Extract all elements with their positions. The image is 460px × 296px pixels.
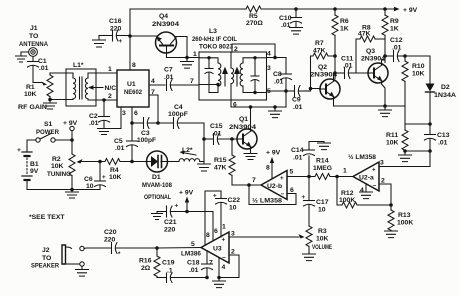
svg-text:220: 220 xyxy=(164,227,176,234)
wire C20 to U3 apex xyxy=(157,247,201,250)
svg-text:1K: 1K xyxy=(340,26,349,33)
capacitor C21 xyxy=(157,203,187,234)
node +9V terminal xyxy=(63,120,78,131)
svg-text:+: + xyxy=(17,147,21,154)
wire Q4 base to L3 pin1 xyxy=(167,57,200,59)
svg-text:8: 8 xyxy=(206,232,210,239)
svg-text:C9: C9 xyxy=(292,97,301,104)
capacitor C16 xyxy=(99,18,130,45)
transformer L3 xyxy=(192,28,267,100)
capacitor C11 xyxy=(335,56,368,79)
svg-text:C7: C7 xyxy=(164,67,173,74)
svg-text:NE602: NE602 xyxy=(124,89,142,96)
svg-text:1: 1 xyxy=(222,224,226,231)
ground xyxy=(76,266,89,276)
svg-text:C19: C19 xyxy=(162,260,175,267)
wire pin4 to C8 xyxy=(267,57,287,59)
svg-text:10K: 10K xyxy=(386,140,399,147)
svg-text:100pF: 100pF xyxy=(168,111,188,118)
svg-text:10K: 10K xyxy=(316,236,329,243)
wire U2-a pin4 ground xyxy=(365,184,367,193)
svg-text:R6: R6 xyxy=(340,18,349,25)
svg-text:MVAM-108: MVAM-108 xyxy=(142,182,172,189)
wire collector bus xyxy=(231,106,286,108)
svg-text:C17: C17 xyxy=(316,199,329,206)
ground xyxy=(198,164,211,171)
svg-text:L3: L3 xyxy=(209,28,217,35)
svg-text:Q3: Q3 xyxy=(366,48,375,55)
wire L3 internal top right to pin4 xyxy=(255,57,267,59)
wire battery bottom rail xyxy=(27,181,100,190)
svg-text:C20: C20 xyxy=(104,229,117,236)
ground xyxy=(399,151,412,162)
wire to D2 xyxy=(405,56,430,83)
svg-text:C8: C8 xyxy=(273,71,282,78)
wire L3 pin6 down xyxy=(230,100,232,107)
jack J2 xyxy=(31,245,87,270)
resistor R6 xyxy=(332,9,349,79)
op-amp U1 NE602 (mixer box) xyxy=(117,70,149,107)
ground xyxy=(66,190,79,199)
resistor R11 xyxy=(386,124,408,151)
resistor R15 xyxy=(214,139,235,185)
wire C4 corner down xyxy=(203,123,205,164)
svg-text:R3: R3 xyxy=(318,228,327,235)
wire Q2 emitter down xyxy=(333,100,335,106)
wire U3 pin4 xyxy=(218,258,220,278)
svg-text:2: 2 xyxy=(381,178,385,185)
transistor Q2 xyxy=(310,64,340,100)
wire R4 to D1 xyxy=(129,161,147,163)
wire wiper arm to R1 xyxy=(33,82,42,84)
svg-text:D1: D1 xyxy=(152,174,161,181)
ground xyxy=(379,106,392,117)
svg-text:TUNING: TUNING xyxy=(47,171,71,178)
svg-text:+: + xyxy=(119,38,123,45)
svg-text:10K: 10K xyxy=(109,174,122,181)
svg-text:−: − xyxy=(373,183,377,190)
svg-text:C21: C21 xyxy=(164,219,177,226)
capacitor C4 xyxy=(158,104,204,129)
svg-text:L1*: L1* xyxy=(73,62,84,69)
node D1 left junction xyxy=(130,160,134,164)
svg-text:+: + xyxy=(280,175,284,182)
wire U3 pin3 to volume xyxy=(229,236,299,238)
svg-text:.01: .01 xyxy=(189,267,199,274)
wire U2-a pin3 stub xyxy=(379,166,383,168)
svg-text:D2: D2 xyxy=(441,84,450,91)
wire battery to switch xyxy=(27,140,36,152)
svg-text:½ LM358: ½ LM358 xyxy=(348,153,376,161)
transistor Q4 xyxy=(152,13,179,58)
svg-text:47K: 47K xyxy=(358,31,371,38)
svg-text:C16: C16 xyxy=(109,18,122,25)
wire U2-b pin6 feedback loop xyxy=(249,185,296,205)
node R15 tap xyxy=(230,137,234,141)
potentiometer R1 xyxy=(18,73,53,111)
svg-text:C13: C13 xyxy=(437,132,450,139)
wire switch to R2 top xyxy=(55,139,72,141)
svg-text:2N3904: 2N3904 xyxy=(152,21,179,28)
ground xyxy=(152,212,163,220)
svg-text:R2: R2 xyxy=(52,156,61,163)
capacitor C20 xyxy=(104,229,157,258)
svg-text:.01: .01 xyxy=(392,45,402,52)
capacitor L3 internal right xyxy=(251,58,267,93)
resistor R10 xyxy=(402,56,425,124)
svg-text:5: 5 xyxy=(290,169,294,176)
node U2-a pin1 junction xyxy=(335,175,339,179)
svg-text:C10: C10 xyxy=(279,15,292,22)
ground xyxy=(290,28,303,35)
resistor R8 xyxy=(356,25,385,74)
svg-text:7: 7 xyxy=(252,177,256,184)
node C12 xyxy=(383,54,387,58)
diode D1 varactor xyxy=(142,151,172,201)
svg-text:10: 10 xyxy=(318,207,326,214)
inductor L3 internal center winding xyxy=(231,52,234,100)
svg-text:+: + xyxy=(302,194,306,201)
svg-text:220: 220 xyxy=(104,237,116,244)
core arrow right xyxy=(235,68,239,86)
transformer L1 xyxy=(66,62,96,106)
wire Q4 collector loop xyxy=(176,37,187,58)
svg-text:Q2: Q2 xyxy=(318,64,327,71)
svg-text:+ 9V: + 9V xyxy=(403,7,418,14)
node C3/C4/pin7 junction xyxy=(156,121,160,125)
svg-text:3: 3 xyxy=(231,231,235,238)
node R13 top xyxy=(389,203,393,207)
svg-text:1N34A: 1N34A xyxy=(434,92,456,99)
svg-text:TO: TO xyxy=(29,33,38,40)
svg-text:C12: C12 xyxy=(390,37,403,44)
capacitor C9 xyxy=(286,86,311,112)
wire U1 pin3 to C2 ground line xyxy=(104,107,121,129)
capacitor C13 xyxy=(425,124,450,151)
svg-text:−: − xyxy=(222,255,226,262)
svg-text:3: 3 xyxy=(122,110,126,117)
svg-text:+ 9V: + 9V xyxy=(266,150,281,157)
svg-text:7: 7 xyxy=(190,78,194,85)
wire R1 top to L1 xyxy=(50,72,66,74)
svg-text:U1: U1 xyxy=(127,81,136,88)
wiper R2 arrow xyxy=(77,159,83,164)
wire U3 pin2 loop xyxy=(219,255,239,278)
capacitor C10 xyxy=(279,9,302,29)
capacitor C6 xyxy=(84,162,106,191)
svg-text:.1: .1 xyxy=(167,268,173,275)
svg-text:R12: R12 xyxy=(341,190,354,197)
wire U2-b pin5 xyxy=(287,176,309,178)
resistor R14 xyxy=(309,158,337,180)
ground xyxy=(318,142,331,150)
svg-text:47K: 47K xyxy=(313,48,326,55)
svg-text:100pF: 100pF xyxy=(137,137,156,144)
svg-text:OPTIONAL: OPTIONAL xyxy=(144,194,171,201)
capacitor C1 xyxy=(28,57,49,83)
svg-text:VOLUME: VOLUME xyxy=(312,244,332,251)
node R2 ground xyxy=(70,188,74,192)
node bottom bus xyxy=(205,276,209,280)
svg-text:R9: R9 xyxy=(390,18,399,25)
svg-text:C4: C4 xyxy=(174,104,183,111)
svg-text:R1: R1 xyxy=(26,84,35,91)
wire 9V terminal down xyxy=(71,131,73,154)
svg-text:100K: 100K xyxy=(339,197,355,204)
svg-text:+: + xyxy=(175,203,179,210)
svg-text:L2*: L2* xyxy=(182,147,193,154)
svg-text:½ LM358: ½ LM358 xyxy=(252,197,282,205)
potentiometer R3 volume xyxy=(306,226,332,254)
capacitor C3 xyxy=(132,118,158,145)
wire Q3 collector xyxy=(382,56,386,63)
ground xyxy=(44,100,57,110)
svg-text:R7: R7 xyxy=(315,40,324,47)
resistor R9 xyxy=(382,9,399,63)
capacitor C7 xyxy=(164,67,199,91)
svg-text:Q4: Q4 xyxy=(159,13,168,20)
svg-text:3: 3 xyxy=(380,160,384,167)
svg-text:+: + xyxy=(372,167,376,174)
svg-text:C22: C22 xyxy=(228,197,241,204)
potentiometer R2 xyxy=(47,154,75,190)
node pin6 junction xyxy=(130,121,134,125)
svg-text:6: 6 xyxy=(290,187,294,194)
svg-text:270Ω: 270Ω xyxy=(246,20,263,27)
svg-text:R14: R14 xyxy=(316,158,329,165)
svg-text:C6: C6 xyxy=(84,176,93,183)
wire rail riser xyxy=(130,9,246,36)
capacitor C8 xyxy=(273,58,292,92)
svg-text:2: 2 xyxy=(231,249,235,256)
capacitor C5 xyxy=(114,123,138,162)
svg-text:260-kHz IF COIL: 260-kHz IF COIL xyxy=(192,36,237,43)
svg-text:.01: .01 xyxy=(438,140,448,147)
wire Q2 base xyxy=(304,90,311,92)
svg-text:U2-a: U2-a xyxy=(359,175,374,182)
diode D2 xyxy=(426,84,457,125)
wire pin1 L1 to U1 xyxy=(96,72,117,74)
svg-text:C18: C18 xyxy=(187,260,200,267)
transistor Q3 xyxy=(361,48,388,84)
wire U1 pin8 up xyxy=(129,36,131,70)
ground xyxy=(98,129,111,135)
inductor L3 internal right winding xyxy=(240,58,255,93)
ground xyxy=(16,56,27,62)
wire L3 pin2 jumper xyxy=(232,44,275,58)
svg-text:ANTENNA: ANTENNA xyxy=(19,41,48,48)
svg-text:R15: R15 xyxy=(214,157,227,164)
resistor R12 xyxy=(337,177,391,209)
svg-text:7: 7 xyxy=(209,260,213,267)
svg-text:47K: 47K xyxy=(214,165,227,172)
svg-text:C11: C11 xyxy=(341,56,353,63)
svg-text:+: + xyxy=(213,193,217,200)
node L3 pin4 xyxy=(273,56,277,60)
svg-text:R4: R4 xyxy=(110,167,119,174)
capacitor L3 internal left xyxy=(199,58,213,93)
node C8/C9 xyxy=(284,89,288,93)
wire to U2-a pin3 xyxy=(383,151,430,167)
svg-text:J1: J1 xyxy=(30,25,38,32)
ground xyxy=(303,254,316,261)
svg-text:10K: 10K xyxy=(51,163,64,170)
svg-text:R13: R13 xyxy=(398,212,411,219)
svg-text:S1: S1 xyxy=(44,121,53,128)
wire rail to R6 R9 and +9V xyxy=(296,8,398,10)
svg-text:U2-b: U2-b xyxy=(267,183,282,190)
svg-text:*SEE TEXT: *SEE TEXT xyxy=(29,214,65,221)
resistor R16 xyxy=(139,248,160,278)
svg-text:1: 1 xyxy=(193,51,197,58)
svg-text:2: 2 xyxy=(234,46,238,53)
wire U3 pin8 loop xyxy=(205,191,221,246)
node U2-b pin5 junction xyxy=(307,175,311,179)
node C16/pin8 xyxy=(128,34,132,38)
node R10 top xyxy=(403,54,407,58)
svg-text:C2: C2 xyxy=(89,113,98,120)
ground xyxy=(269,107,282,118)
svg-text:1: 1 xyxy=(108,66,112,73)
resistor R4 xyxy=(100,159,129,182)
node C6 junction xyxy=(98,160,102,164)
wire U1 pin6 down xyxy=(131,107,133,123)
resistor R7 xyxy=(311,40,336,89)
svg-text:Q1: Q1 xyxy=(239,116,248,123)
node R1 bottom xyxy=(48,98,52,102)
svg-text:C15: C15 xyxy=(210,123,223,130)
capacitor C22 xyxy=(213,191,240,237)
op-amp U3 xyxy=(181,232,229,263)
svg-text:10K: 10K xyxy=(412,71,425,78)
svg-text:5: 5 xyxy=(267,88,271,95)
wire L3 pin5 xyxy=(267,90,287,92)
wire Q2 collector up xyxy=(333,73,335,79)
svg-text:RF GAIN: RF GAIN xyxy=(18,104,47,111)
wire U1 pin7 to oscillator xyxy=(149,95,158,123)
svg-text:+: + xyxy=(102,174,106,181)
svg-text:10: 10 xyxy=(229,205,237,212)
svg-text:.01: .01 xyxy=(89,120,99,127)
svg-text:.01: .01 xyxy=(343,63,353,70)
svg-text:8: 8 xyxy=(132,62,136,69)
svg-text:.01: .01 xyxy=(212,131,222,138)
battery B1 xyxy=(17,147,39,180)
svg-text:.01: .01 xyxy=(39,65,49,72)
svg-text:TOKO 8023: TOKO 8023 xyxy=(199,44,233,51)
svg-text:8: 8 xyxy=(266,165,270,172)
wire R11/C13 bottom xyxy=(405,150,430,152)
svg-text:6: 6 xyxy=(214,228,218,235)
wire to U2-a apex xyxy=(337,176,353,178)
svg-text:R10: R10 xyxy=(412,63,425,70)
svg-text:9V: 9V xyxy=(30,168,39,175)
svg-text:TO: TO xyxy=(42,255,51,262)
ground Q1 emitter xyxy=(244,150,257,160)
wire U2-a pin2 xyxy=(379,184,391,205)
svg-text:R16: R16 xyxy=(139,258,152,265)
svg-text:.01: .01 xyxy=(274,79,284,86)
wire pin2 L1 to U1 xyxy=(96,99,117,101)
connector J1 xyxy=(19,25,48,56)
svg-text:6: 6 xyxy=(134,110,138,117)
svg-text:C1: C1 xyxy=(38,58,47,65)
capacitor C18 xyxy=(187,251,213,278)
svg-text:10: 10 xyxy=(86,183,94,190)
node R16 tap xyxy=(155,246,159,250)
wire U1 pin4 to C7 xyxy=(149,84,165,86)
capacitor C14 xyxy=(291,142,324,177)
capacitor C2 xyxy=(89,100,110,129)
node C2 tap xyxy=(102,98,106,102)
resistor R5 on rail xyxy=(246,6,295,27)
op-amp U2-a xyxy=(348,153,379,191)
inductor L3 internal left winding xyxy=(209,58,221,93)
op-amp U2-b xyxy=(261,171,287,200)
capacitor C15 xyxy=(204,123,237,145)
wire U2-b pin7 xyxy=(232,184,261,186)
svg-text:4: 4 xyxy=(222,264,226,271)
wire Q4 emitter to node xyxy=(130,35,157,37)
svg-text:+: + xyxy=(222,237,226,244)
svg-text:C14: C14 xyxy=(291,147,304,154)
wire L1 lower left xyxy=(50,99,66,101)
svg-text:N/C: N/C xyxy=(105,85,117,92)
svg-text:U3: U3 xyxy=(213,246,222,253)
resistor R13 xyxy=(388,205,413,231)
capacitor C17 xyxy=(302,177,329,227)
wire detector node xyxy=(405,123,430,125)
svg-text:J2: J2 xyxy=(42,247,50,254)
svg-text:1K: 1K xyxy=(390,26,399,33)
inductor L2 xyxy=(168,147,200,162)
ground xyxy=(385,231,398,238)
wire U2-b pin8 supply xyxy=(271,162,273,179)
wire supply to U3 pin6 xyxy=(187,211,213,213)
capacitor C12 xyxy=(385,37,405,62)
wire L2 to ground node xyxy=(200,161,204,163)
svg-text:4: 4 xyxy=(267,51,271,58)
svg-text:R5: R5 xyxy=(249,13,258,20)
ground xyxy=(213,278,226,288)
svg-text:+ 9V: + 9V xyxy=(63,120,78,127)
node C15 junction xyxy=(202,137,206,141)
svg-text:+ 9V: + 9V xyxy=(179,190,194,197)
wiper R3 arrow xyxy=(299,234,305,239)
wire Q3 emitter xyxy=(382,84,386,106)
svg-text:100K: 100K xyxy=(397,220,413,227)
svg-text:.01: .01 xyxy=(293,155,303,162)
wire L3 pin7 tap xyxy=(199,84,218,86)
svg-text:.01: .01 xyxy=(293,104,303,111)
svg-text:SPEAKER: SPEAKER xyxy=(31,263,59,270)
svg-text:1MEG: 1MEG xyxy=(313,165,332,172)
svg-text:4: 4 xyxy=(360,187,364,194)
switch S1 xyxy=(36,121,59,142)
svg-text:2Ω: 2Ω xyxy=(141,265,151,272)
ground xyxy=(181,58,194,69)
svg-text:.01: .01 xyxy=(115,145,125,152)
wire U3 output pin5 xyxy=(87,247,112,249)
svg-text:B1: B1 xyxy=(30,161,39,168)
svg-text:220: 220 xyxy=(110,26,122,33)
node +9V feed xyxy=(185,210,189,214)
capacitor C19 xyxy=(157,260,207,283)
wire Q1 collector up xyxy=(250,107,252,130)
node C10 xyxy=(294,7,298,11)
svg-text:4: 4 xyxy=(151,78,155,85)
svg-text:LM386: LM386 xyxy=(181,251,201,258)
